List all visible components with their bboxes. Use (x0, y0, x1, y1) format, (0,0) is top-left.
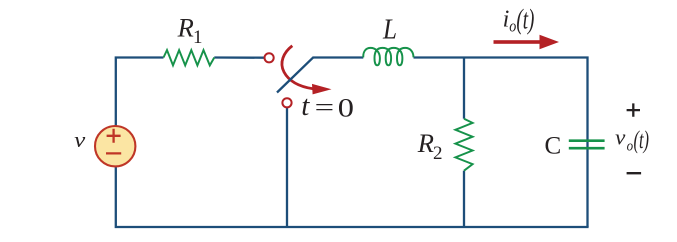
inductor L (363, 48, 413, 65)
svg-text:(t): (t) (634, 127, 650, 154)
svg-text:1: 1 (193, 27, 203, 48)
svg-text:0: 0 (338, 92, 354, 122)
svg-text:(t): (t) (516, 5, 534, 36)
wire: switch blade top to inductor (313, 56, 364, 58)
svg-text:o: o (509, 16, 516, 35)
svg-text:R: R (177, 14, 194, 43)
svg-text:R: R (417, 129, 434, 158)
svg-text:o: o (627, 138, 634, 154)
svg-text:2: 2 (433, 143, 443, 164)
switch contact (lower) (282, 98, 291, 107)
wire: switch branch down (286, 108, 288, 227)
switch contact (left) (265, 53, 274, 62)
switch action arc (t=0) (282, 46, 332, 95)
svg-text:t: t (301, 90, 310, 122)
svg-text:C: C (545, 132, 562, 159)
capacitor C plates (569, 141, 605, 149)
svg-text:v: v (615, 125, 625, 150)
wire: R2 branch top (463, 58, 465, 119)
resistor R2 (455, 119, 472, 171)
wire: R2 branch bottom (463, 171, 465, 227)
wire: top-left corner to R1 (116, 58, 164, 127)
svg-text:L: L (382, 15, 397, 46)
svg-text:=: = (315, 95, 335, 122)
label + (v_o polarity) (627, 103, 640, 116)
voltage source v (95, 126, 135, 166)
resistor R1 (164, 50, 215, 65)
label - (v_o polarity) (627, 172, 642, 174)
wire: inductor to top-right corner and down right branch (414, 58, 588, 228)
wire: R1 to switch left contact (214, 56, 264, 59)
switch blade (277, 57, 313, 92)
wire: left branch below source and bottom rail (116, 166, 589, 227)
current arrow i_o(t) (494, 35, 560, 50)
svg-text:v: v (74, 127, 85, 152)
